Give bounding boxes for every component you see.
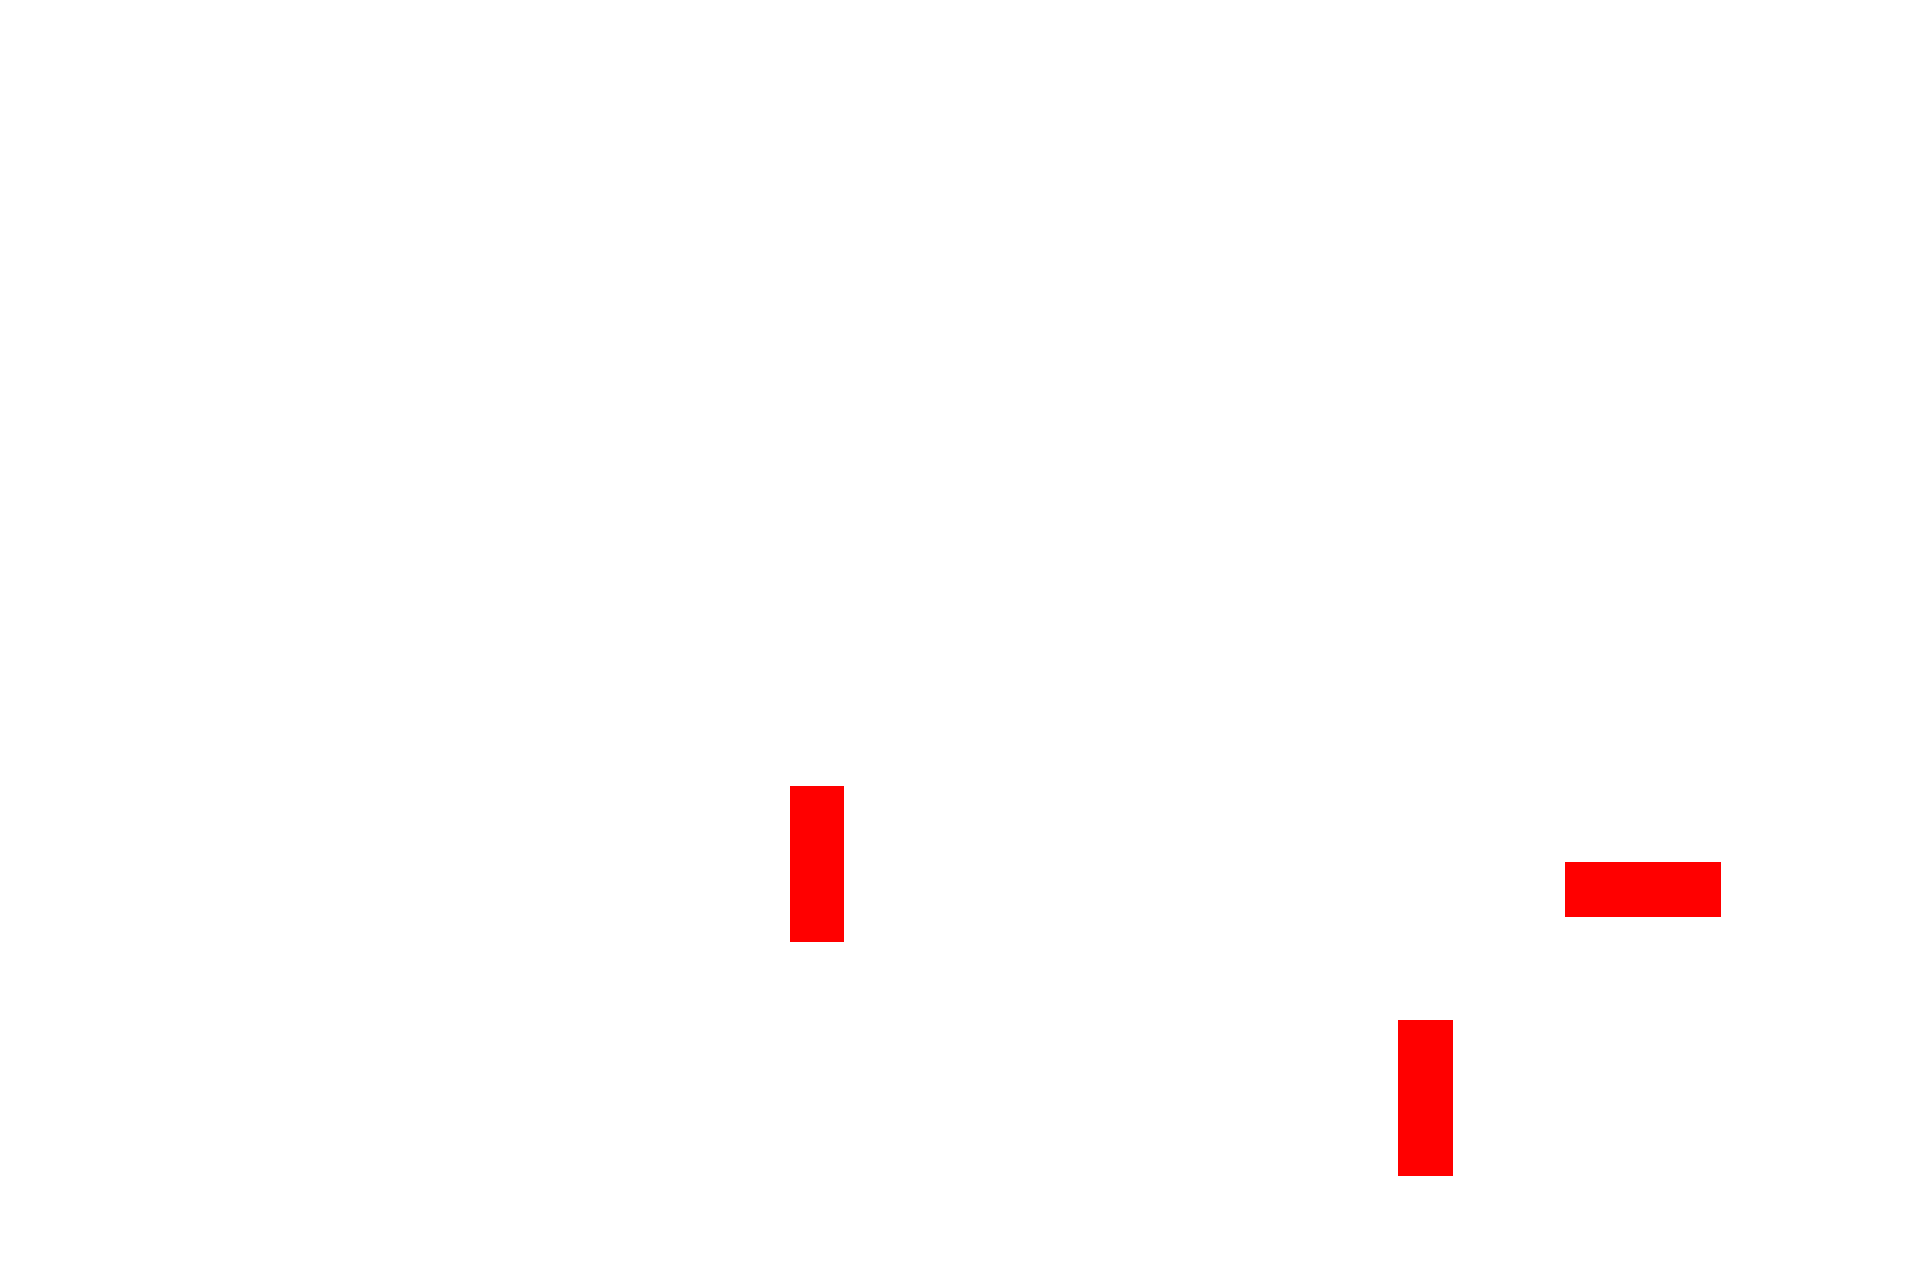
resistor R3 (vertical, highlighted) [1398,1020,1453,1176]
resistor R1 (vertical, highlighted) [790,786,844,942]
resistor R2 (horizontal, highlighted) [1565,862,1721,917]
